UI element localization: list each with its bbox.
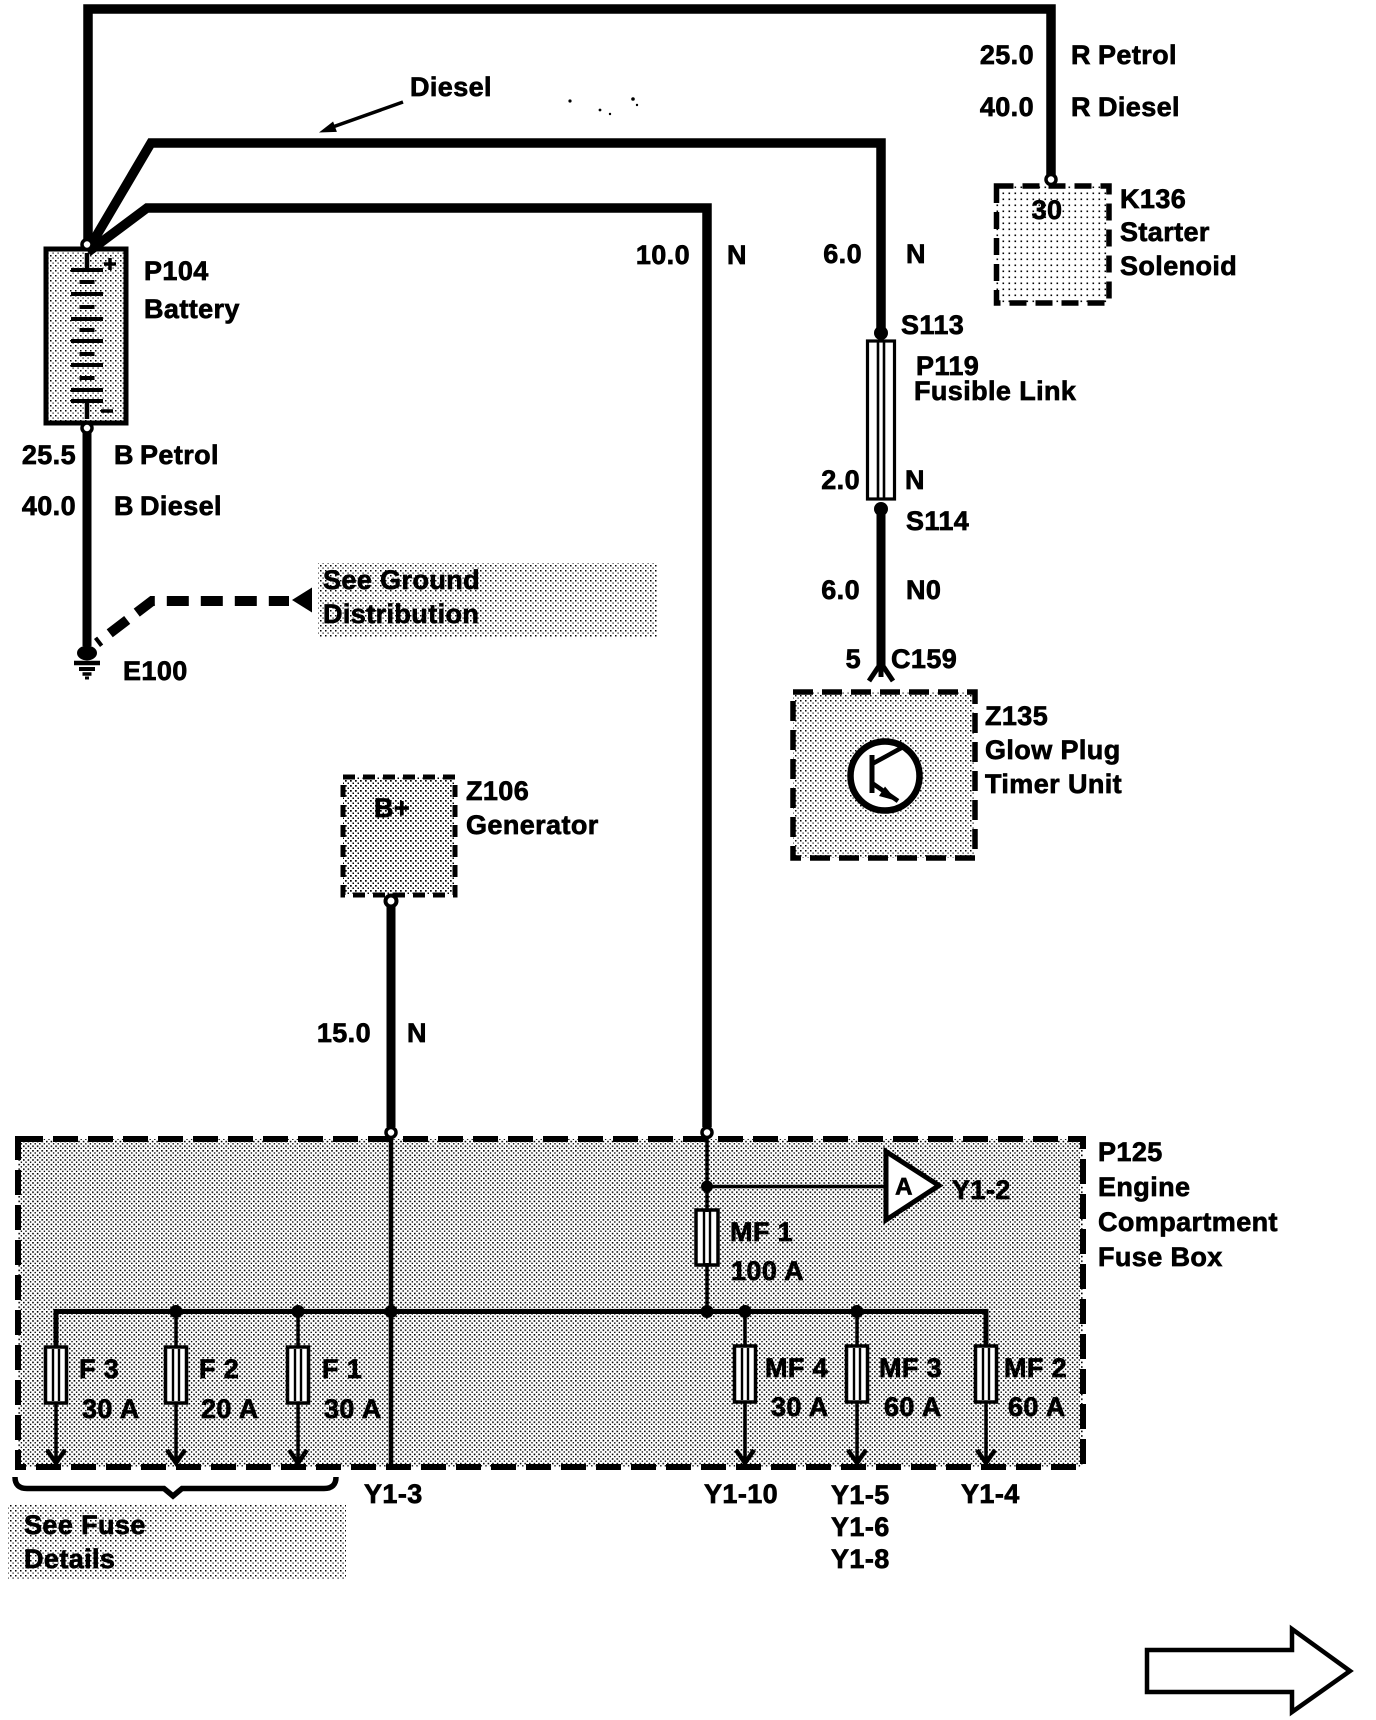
svg-text:C159: C159 — [891, 644, 957, 674]
svg-text:A: A — [895, 1174, 913, 1201]
svg-text:Diesel: Diesel — [140, 491, 222, 521]
svg-text:Battery: Battery — [144, 294, 240, 324]
svg-text:MF 1: MF 1 — [730, 1217, 793, 1247]
svg-text:5: 5 — [846, 644, 861, 674]
battery positive terminal — [82, 240, 92, 250]
svg-text:Distribution: Distribution — [323, 599, 479, 629]
junction node A — [701, 1181, 713, 1193]
svg-text:Generator: Generator — [466, 810, 599, 840]
svg-text:N: N — [727, 240, 747, 270]
bus bar in fuse box — [56, 1312, 986, 1350]
svg-text:Petrol: Petrol — [140, 440, 219, 470]
battery negative terminal — [82, 423, 92, 433]
svg-text:Z106: Z106 — [466, 776, 529, 806]
junction bus/F1 — [292, 1305, 305, 1318]
fuse box P125 interior — [18, 1139, 1083, 1467]
svg-text:30: 30 — [1032, 195, 1063, 225]
starter solenoid K136 box — [997, 186, 1110, 303]
svg-text:Z135: Z135 — [985, 701, 1048, 731]
junction S114 — [874, 502, 888, 516]
fuse box P125 dashed border — [18, 1139, 1083, 1467]
svg-text:MF 2: MF 2 — [1004, 1353, 1067, 1383]
svg-text:Diesel: Diesel — [1098, 92, 1180, 122]
svg-text:P125: P125 — [1098, 1137, 1163, 1167]
svg-text:Timer Unit: Timer Unit — [985, 769, 1122, 799]
svg-text:S113: S113 — [901, 310, 964, 340]
svg-text:N: N — [906, 239, 926, 269]
svg-text:F 3: F 3 — [79, 1354, 119, 1384]
svg-text:E100: E100 — [123, 656, 188, 686]
svg-text:Engine: Engine — [1098, 1172, 1190, 1202]
junction bus/MF1 — [701, 1305, 714, 1318]
junction bus/F2 — [170, 1305, 183, 1318]
svg-text:N: N — [905, 465, 925, 495]
see ground distribution block — [318, 563, 657, 637]
svg-text:Glow Plug: Glow Plug — [985, 735, 1121, 765]
wire generator to fuse box (15.0 N) — [387, 907, 396, 1127]
battery P104 — [46, 249, 126, 423]
svg-text:30 A: 30 A — [324, 1394, 382, 1424]
svg-text:15.0: 15.0 — [317, 1018, 371, 1048]
svg-text:B: B — [114, 440, 134, 470]
svg-text:25.5: 25.5 — [22, 440, 76, 470]
svg-text:6.0: 6.0 — [823, 239, 862, 269]
svg-text:Y1-3: Y1-3 — [364, 1479, 423, 1509]
wire battery to fusible link (Diesel, N) — [88, 143, 881, 330]
svg-text:R: R — [1071, 92, 1091, 122]
glow plug timer unit Z135 box — [793, 692, 975, 858]
svg-text:Petrol: Petrol — [1098, 40, 1177, 70]
brace under F fuses — [15, 1477, 336, 1496]
svg-text:K136: K136 — [1120, 184, 1186, 214]
svg-text:F 2: F 2 — [199, 1354, 239, 1384]
svg-text:Fuse Box: Fuse Box — [1098, 1242, 1223, 1272]
svg-text:Y1-2: Y1-2 — [952, 1175, 1011, 1205]
connector arrow A to Y1-2 — [886, 1152, 939, 1221]
svg-text:B+: B+ — [374, 793, 410, 823]
starter solenoid K136 terminal — [1046, 175, 1056, 185]
svg-text:40.0: 40.0 — [980, 92, 1034, 122]
svg-text:Y1-4: Y1-4 — [961, 1479, 1020, 1509]
wire battery to ground (B) — [83, 433, 92, 646]
junction bus/MF4 — [739, 1305, 752, 1318]
svg-text:F 1: F 1 — [322, 1354, 362, 1384]
generator Z106 box — [343, 777, 455, 895]
svg-text:Y1-8: Y1-8 — [831, 1544, 890, 1574]
svg-text:N0: N0 — [906, 575, 941, 605]
Diesel callout arrow — [327, 102, 403, 129]
svg-text:P104: P104 — [144, 256, 209, 286]
svg-text:S114: S114 — [906, 506, 969, 536]
fuse F3 30A — [46, 1347, 67, 1403]
wire battery to fuse box (10.0 N) — [88, 208, 707, 1127]
see fuse details block — [8, 1505, 346, 1580]
wire node A branch — [707, 1185, 884, 1189]
svg-text:Y1-5: Y1-5 — [831, 1480, 890, 1510]
connector C159 pin 5 — [869, 663, 893, 681]
svg-text:30 A: 30 A — [82, 1394, 140, 1424]
svg-text:60 A: 60 A — [884, 1392, 942, 1422]
svg-text:Starter: Starter — [1120, 217, 1210, 247]
svg-text:Y1-6: Y1-6 — [831, 1512, 890, 1542]
junction S113 — [874, 326, 888, 340]
svg-text:10.0: 10.0 — [636, 240, 690, 270]
wire through MF1 to bus — [705, 1138, 709, 1212]
wire S114 to C159 (N0) — [877, 509, 886, 665]
fuse MF4 30A — [743, 1311, 747, 1346]
fuse MF1 100A — [696, 1210, 718, 1265]
svg-text:20 A: 20 A — [201, 1394, 259, 1424]
generator terminal — [386, 896, 397, 907]
ground E100 — [77, 646, 97, 661]
fuse box entry terminal (generator) — [386, 1128, 396, 1138]
wire battery to starter solenoid (R) — [88, 9, 1051, 250]
svg-text:2.0: 2.0 — [821, 465, 860, 495]
ground distribution arrowhead — [292, 588, 312, 613]
svg-text:Fusible Link: Fusible Link — [914, 376, 1077, 406]
junction bus/generator feed — [385, 1305, 398, 1318]
transistor symbol in Z135 — [851, 742, 920, 811]
fusible link P119 — [868, 341, 895, 499]
svg-text:MF 3: MF 3 — [879, 1353, 942, 1383]
svg-text:30 A: 30 A — [771, 1392, 829, 1422]
svg-text:Details: Details — [24, 1544, 115, 1574]
svg-text:See Fuse: See Fuse — [24, 1510, 146, 1540]
next page arrow — [1147, 1629, 1350, 1712]
svg-text:Y1-10: Y1-10 — [704, 1479, 778, 1509]
svg-text:See Ground: See Ground — [323, 565, 480, 595]
svg-text:6.0: 6.0 — [821, 575, 860, 605]
junction bus/MF3 — [851, 1305, 864, 1318]
svg-text:MF 4: MF 4 — [765, 1353, 828, 1383]
wire inside box generator to Y1-3 — [389, 1138, 394, 1464]
svg-text:Solenoid: Solenoid — [1120, 251, 1237, 281]
fuse F1 30A — [296, 1311, 300, 1347]
svg-text:60 A: 60 A — [1008, 1392, 1066, 1422]
svg-text:Compartment: Compartment — [1098, 1207, 1278, 1237]
svg-text:40.0: 40.0 — [22, 491, 76, 521]
svg-text:N: N — [407, 1018, 427, 1048]
svg-text:100 A: 100 A — [731, 1256, 804, 1286]
svg-text:B: B — [114, 491, 134, 521]
fuse F2 20A — [174, 1311, 178, 1347]
dashed wire to ground distribution — [97, 601, 289, 643]
svg-text:25.0: 25.0 — [980, 40, 1034, 70]
svg-text:R: R — [1071, 40, 1091, 70]
fuse MF2 60A — [976, 1346, 997, 1402]
fuse MF3 60A — [855, 1311, 859, 1346]
svg-text:Diesel: Diesel — [410, 72, 492, 102]
fuse box entry terminal (10.0 N wire) — [702, 1128, 712, 1138]
